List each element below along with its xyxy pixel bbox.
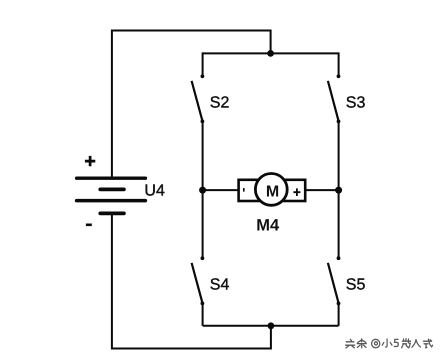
svg-text:S2: S2 bbox=[210, 95, 230, 112]
wire: S4 bottom to bottom rail bbox=[202, 304, 204, 326]
wire: S2 bottom to left motor junction bbox=[202, 122, 204, 191]
wire: left junction to motor left terminal bbox=[203, 189, 239, 191]
wire: S3 bottom to right motor junction bbox=[338, 122, 340, 191]
switch S3 bbox=[328, 74, 341, 123]
battery - polarity mark bbox=[86, 224, 92, 227]
switch S4 bbox=[192, 256, 205, 305]
switch S2 bbox=[192, 74, 205, 123]
svg-text:S5: S5 bbox=[346, 277, 366, 294]
svg-text:U4: U4 bbox=[144, 183, 165, 200]
wire: top rail between S2 and S3 branches bbox=[203, 52, 339, 54]
wire: right junction down to S5 bbox=[338, 190, 340, 257]
svg-text:M4: M4 bbox=[256, 217, 280, 235]
wire: battery + terminal up and across to top junction bbox=[112, 31, 271, 179]
wire: bottom junction down and across to battery - terminal bbox=[112, 214, 271, 349]
node: bottom junction bbox=[268, 322, 275, 329]
wire: S5 bottom to bottom rail bbox=[338, 304, 340, 326]
svg-text:S4: S4 bbox=[210, 277, 230, 294]
wire: bottom rail between S4 and S5 bbox=[203, 325, 339, 327]
switch S5 bbox=[328, 256, 341, 305]
node: left motor junction bbox=[199, 187, 206, 194]
wire: left junction down to S4 bbox=[202, 190, 204, 257]
node: top junction bbox=[267, 50, 274, 57]
motor M4 bbox=[239, 174, 306, 206]
battery U4 bbox=[77, 178, 146, 213]
node: right motor junction bbox=[335, 187, 342, 194]
wire: top rail corner down to S3 bbox=[338, 52, 340, 74]
battery + polarity mark bbox=[85, 156, 95, 166]
wire: motor right terminal to right junction bbox=[305, 189, 339, 191]
svg-text:M: M bbox=[266, 184, 279, 201]
svg-text:S3: S3 bbox=[346, 95, 366, 112]
wire: top rail corner down to S2 bbox=[202, 52, 204, 74]
